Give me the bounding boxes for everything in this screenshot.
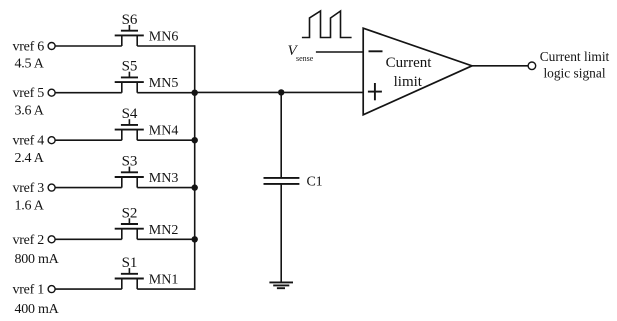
transistor MN6 bbox=[115, 25, 144, 46]
svg-text:sense: sense bbox=[296, 54, 314, 63]
terminal vref 2 bbox=[48, 236, 55, 243]
wire bus to comparator + input bbox=[195, 91, 364, 93]
wire MN6 drain to bus bbox=[137, 45, 195, 47]
wire vref 1 to MN1 source bbox=[55, 288, 121, 290]
svg-text:vref 3: vref 3 bbox=[13, 181, 45, 196]
svg-text:vref 2: vref 2 bbox=[13, 233, 45, 248]
svg-text:4.5 A: 4.5 A bbox=[15, 57, 45, 72]
wire MN4 drain to bus bbox=[137, 139, 195, 141]
junction: bus / MN4 drain bbox=[192, 137, 198, 143]
terminal vref 5 bbox=[48, 89, 55, 96]
svg-text:1.6 A: 1.6 A bbox=[15, 198, 45, 213]
label output: Current limit logic signal bbox=[540, 49, 610, 80]
junction: bus / MN5 drain bbox=[192, 90, 198, 96]
wire MN3 drain to bus bbox=[137, 187, 195, 189]
wire vref 4 to MN4 source bbox=[55, 139, 121, 141]
transistor MN2 bbox=[115, 218, 144, 239]
junction: bus / MN3 drain bbox=[192, 184, 198, 190]
svg-text:Current: Current bbox=[386, 55, 433, 71]
svg-text:Current limit: Current limit bbox=[540, 49, 610, 64]
svg-text:limit: limit bbox=[394, 74, 423, 90]
terminal vref 4 bbox=[48, 137, 55, 144]
svg-text:S1: S1 bbox=[122, 255, 138, 271]
svg-text:S4: S4 bbox=[122, 106, 138, 122]
svg-text:S3: S3 bbox=[122, 154, 138, 170]
svg-text:800 mA: 800 mA bbox=[15, 252, 60, 267]
svg-text:vref 5: vref 5 bbox=[13, 86, 45, 101]
wire MN2 drain to bus bbox=[137, 238, 195, 240]
terminal vref 6 bbox=[48, 43, 55, 50]
wire vref 6 to MN6 source bbox=[55, 45, 121, 47]
terminal: current limit logic signal output bbox=[528, 62, 536, 70]
svg-text:vref 1: vref 1 bbox=[13, 283, 45, 298]
wire vref 3 to MN3 source bbox=[55, 187, 121, 189]
svg-text:2.4 A: 2.4 A bbox=[15, 151, 45, 166]
transistor MN1 bbox=[115, 268, 144, 289]
wire vref 5 to MN5 source bbox=[55, 92, 121, 94]
svg-text:logic signal: logic signal bbox=[543, 65, 605, 80]
transistor MN4 bbox=[115, 119, 144, 140]
capacitor C1 bbox=[264, 178, 300, 184]
svg-text:S5: S5 bbox=[122, 59, 138, 75]
svg-text:MN1: MN1 bbox=[149, 273, 179, 288]
wire Vsense to comparator - input bbox=[316, 51, 363, 53]
svg-text:MN4: MN4 bbox=[149, 124, 179, 139]
bus wire: common node of MN1..MN6 drains bbox=[194, 45, 196, 290]
svg-text:MN3: MN3 bbox=[149, 171, 179, 186]
svg-text:400 mA: 400 mA bbox=[15, 302, 60, 317]
svg-text:S2: S2 bbox=[122, 205, 138, 221]
wire vref 2 to MN2 source bbox=[55, 238, 121, 240]
svg-text:vref 6: vref 6 bbox=[13, 40, 45, 55]
ground bbox=[269, 282, 293, 288]
svg-text:MN6: MN6 bbox=[149, 30, 179, 45]
wire C1 bottom to ground bbox=[280, 184, 282, 283]
svg-text:vref 4: vref 4 bbox=[13, 134, 45, 149]
op-amp U1: current limit comparator bbox=[363, 28, 472, 115]
svg-text:MN5: MN5 bbox=[149, 76, 179, 91]
junction: bus / MN2 drain bbox=[192, 236, 198, 242]
pin - (inverting input) bbox=[369, 50, 383, 52]
svg-text:S6: S6 bbox=[122, 12, 138, 28]
svg-text:MN2: MN2 bbox=[149, 223, 179, 238]
svg-text:C1: C1 bbox=[307, 175, 323, 190]
pin + (non-inverting input) bbox=[368, 91, 382, 93]
wire MN1 drain to bus bbox=[137, 288, 195, 290]
terminal vref 1 bbox=[48, 286, 55, 293]
wire C1 top bbox=[280, 92, 282, 177]
terminal vref 3 bbox=[48, 184, 55, 191]
svg-text:3.6 A: 3.6 A bbox=[15, 103, 45, 118]
junction: C1 tap bbox=[278, 89, 284, 95]
transistor MN5 bbox=[115, 72, 144, 93]
wire comparator output bbox=[472, 65, 528, 67]
wire MN5 drain to bus bbox=[137, 92, 195, 94]
Vsense waveform symbol bbox=[302, 11, 352, 38]
label Vsense bbox=[288, 43, 314, 63]
transistor MN3 bbox=[115, 167, 144, 188]
